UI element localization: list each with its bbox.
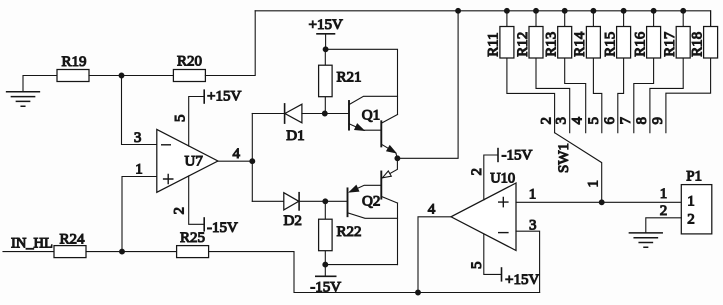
svg-text:-15V: -15V [502,148,533,164]
U7 pin5 to +15V [173,89,242,147]
svg-text:2: 2 [469,168,485,176]
svg-text:IN_HL: IN_HL [11,236,53,252]
svg-text:3: 3 [554,117,570,125]
svg-text:5: 5 [469,262,485,270]
svg-text:R16: R16 [632,31,648,57]
resistor R22 [319,201,362,264]
resistor R12 with wire to SW1 contact 3 [515,8,570,132]
svg-text:1: 1 [660,186,668,202]
resistor R15 with wire to SW1 contact 6 [602,8,630,132]
svg-text:1: 1 [687,194,695,210]
svg-text:6: 6 [602,117,618,125]
node (R24/R25 to U7 pin1) [120,249,125,254]
wire (P1 pin2 to ground) [646,218,682,233]
svg-text:R18: R18 [689,32,705,57]
resistor R11 with wire to SW1 contact 2 [486,8,555,132]
wire (out to top rail) [397,11,458,159]
diode D1 [252,104,349,144]
wire (top rail) [255,11,710,27]
svg-text:R19: R19 [62,54,87,70]
switch SW1 [539,117,666,203]
svg-text:3: 3 [529,218,537,234]
svg-text:1: 1 [529,186,537,202]
wire [86,251,177,253]
resistor R25 [177,230,209,258]
resistor R13 with wire to SW1 contact 4 [544,8,586,132]
wire (U10 pin3 feedback) [516,218,540,293]
op-amp U7 [157,129,218,192]
node (U7 out) [250,159,255,164]
wire (U7 pin1) [122,162,157,252]
svg-text:U7: U7 [185,153,204,169]
svg-text:U10: U10 [490,171,515,187]
connector P1 [660,168,712,234]
svg-text:2: 2 [539,117,555,125]
node (feedback) [416,290,421,295]
svg-text:3: 3 [134,130,142,146]
transistor Q2 [348,158,398,264]
svg-text:Q2: Q2 [362,194,380,210]
svg-text:R11: R11 [486,32,502,56]
diode D2 [252,193,347,229]
svg-text:1: 1 [135,162,143,178]
svg-text:4: 4 [428,202,436,218]
ground (P1) [629,233,662,247]
ground [7,76,57,107]
svg-text:R25: R25 [180,230,205,246]
wire (R25 to bottom rail) [209,252,540,293]
svg-text:P1: P1 [686,168,702,184]
svg-text:+15V: +15V [207,89,241,105]
wire (U7 output pin4) [218,146,252,162]
svg-text:2: 2 [172,207,188,215]
node (SW1 pole / U10 pin1 / P1) [599,200,604,205]
resistor R16 with wire to SW1 contact 7 [632,8,660,132]
resistor R21 [319,49,362,113]
wire [205,11,255,76]
op-amp U10 [451,171,516,251]
node (R22/-15V/Q2 coll) [323,262,328,267]
svg-text:SW1: SW1 [556,143,572,173]
svg-text:-15V: -15V [310,280,341,296]
wire [89,75,173,77]
svg-text:8: 8 [634,117,650,125]
svg-text:Q1: Q1 [362,108,380,124]
resistor R18 with wire to SW1 contact 9 [666,11,718,133]
wire (U7 pin3) [122,76,157,146]
resistor R20 [173,54,205,82]
wire (U10 pin1 to P1 pin1) [516,186,681,202]
net IN_HL [3,236,54,252]
svg-text:9: 9 [650,117,666,125]
svg-text:+15V: +15V [309,17,343,33]
svg-text:5: 5 [173,115,189,123]
svg-text:R24: R24 [60,231,86,247]
node (D2/R22/Q2 base) [323,199,328,204]
svg-text:R15: R15 [602,32,618,57]
svg-text:4: 4 [570,117,586,125]
wire [325,264,397,266]
node (D1/R21/Q1 base) [322,111,327,116]
svg-text:7: 7 [618,117,634,125]
node (push-pull out) [395,156,400,161]
svg-text:R21: R21 [337,70,362,86]
node (rail T) [456,8,461,13]
svg-text:1: 1 [585,180,601,188]
svg-text:R20: R20 [177,54,202,70]
wire (to D1/D2) [251,114,253,202]
svg-text:+15V: +15V [505,272,539,288]
node (R19/R20 to U7 pin3) [119,73,124,78]
svg-text:R17: R17 [662,31,678,57]
U7 pin2 to -15V [172,176,238,236]
svg-text:R12: R12 [515,32,531,57]
wire (U10 output pin4) [418,202,451,293]
svg-text:5: 5 [586,117,602,125]
wire (to Q1 collector) [326,49,398,114]
svg-text:4: 4 [233,146,241,162]
svg-text:-15V: -15V [207,220,238,236]
svg-text:R14: R14 [572,31,588,57]
svg-text:D2: D2 [284,213,302,229]
transistor Q1 [349,96,398,158]
svg-text:D1: D1 [286,128,304,144]
svg-text:2: 2 [660,203,668,219]
resistor R14 with wire to SW1 contact 5 [572,8,602,132]
svg-text:R22: R22 [337,224,362,240]
svg-text:R13: R13 [544,32,560,57]
resistor R17 with wire to SW1 contact 8 [650,8,690,132]
svg-text:2: 2 [687,211,695,227]
node (+15V/R21/Q1 coll) [323,47,328,52]
power -15V [310,265,341,296]
U10 pin2 to -15V [469,148,532,200]
U10 pin5 to +15V [469,234,539,288]
resistor R24 [54,231,86,257]
resistor R19 [57,54,89,82]
power +15V [309,17,343,49]
